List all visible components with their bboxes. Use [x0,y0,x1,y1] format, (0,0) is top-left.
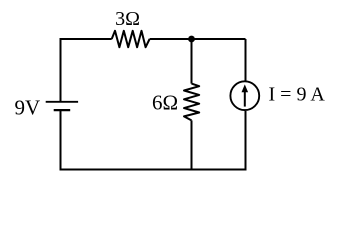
battery V1 short plate [54,109,70,111]
battery V1 long plate [46,101,78,103]
wire middle branch upper [191,39,193,84]
resistor R2 6ohm vertical zigzag [184,84,199,121]
wire right rail upper [245,39,247,81]
wire top rail left segment [61,38,112,40]
svg-text:3Ω: 3Ω [115,8,140,30]
wire bottom rail [60,169,247,171]
wire right rail lower [245,111,247,170]
resistor R1 3ohm zigzag [112,31,150,47]
wire left rail upper [60,38,62,101]
current source I1 arrow shaft [244,90,246,107]
svg-text:6Ω: 6Ω [152,90,178,114]
wire middle branch lower [191,120,193,169]
current source I1 circle [230,81,259,110]
wire left rail lower [60,111,62,171]
current source I1 arrow head [242,84,249,92]
wire top rail right segment [150,38,246,40]
node junction dot top [188,36,195,43]
svg-text:I = 9 A: I = 9 A [269,84,326,106]
svg-text:9V: 9V [15,96,41,120]
